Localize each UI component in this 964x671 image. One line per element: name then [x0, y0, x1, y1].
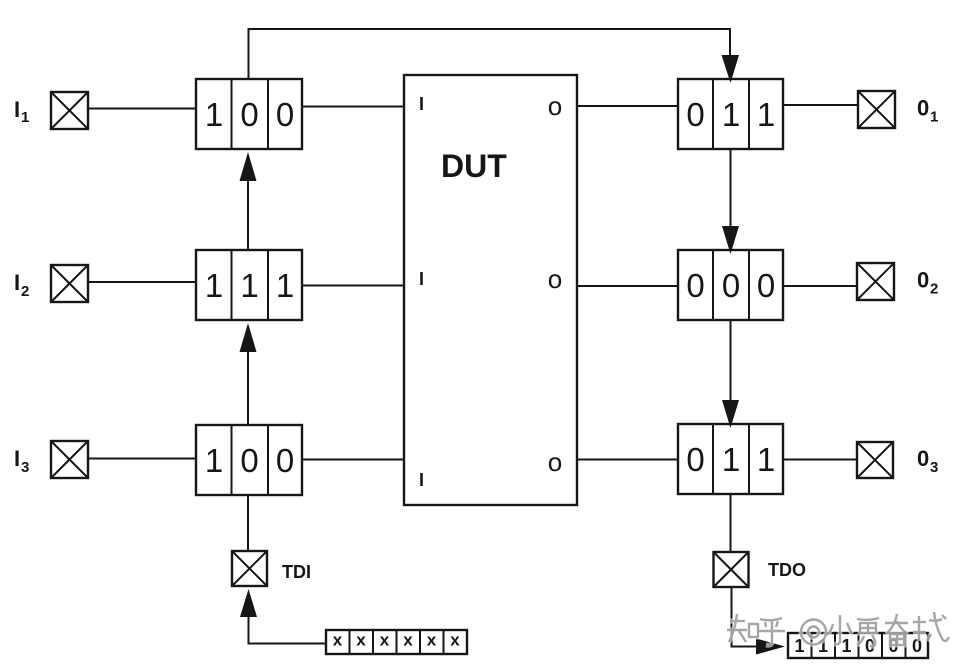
svg-text:I: I — [14, 270, 20, 295]
wire output register3 bottom to TDO pad — [730, 494, 732, 552]
svg-text:1: 1 — [757, 96, 775, 133]
svg-text:x: x — [333, 631, 343, 650]
node I1 label — [14, 97, 29, 126]
pin pad O3 (crossed box) — [857, 442, 893, 478]
pin pad I3 (crossed box) — [51, 441, 88, 478]
wire shift down: output register1 to register2 with arrowhead — [730, 149, 732, 226]
wire I2 pad to register — [88, 281, 196, 283]
svg-text:x: x — [356, 631, 366, 650]
wire register3 bottom to TDI pad — [247, 495, 249, 551]
wire TDO down and right to serial-out register — [732, 587, 758, 647]
svg-text:1: 1 — [240, 267, 258, 304]
svg-text:I: I — [419, 269, 424, 289]
svg-text:1: 1 — [757, 441, 775, 478]
xiao — [827, 615, 852, 644]
wire output register2 to O2 pad — [783, 285, 857, 287]
arrowhead into O1 top — [722, 55, 740, 83]
DUT U1 — [404, 75, 577, 505]
boundary scan cell register 0 1 1 (output row 1) — [678, 79, 783, 149]
svg-text:1: 1 — [205, 267, 223, 304]
boundary scan cell register 1 0 0 (input row 3) — [196, 425, 302, 495]
wire DUT to output register 1 — [577, 105, 678, 107]
svg-text:x: x — [427, 631, 437, 650]
svg-text:I: I — [14, 97, 20, 122]
fen — [885, 614, 908, 645]
node O3 label — [917, 446, 938, 476]
svg-text:0: 0 — [686, 96, 704, 133]
wire shift up: register2 to register1 with arrowhead — [247, 181, 249, 250]
svg-text:1: 1 — [276, 267, 294, 304]
svg-text:3: 3 — [930, 459, 938, 476]
wire shift down: output register2 to register3 with arrowhead — [730, 320, 732, 400]
svg-text:o: o — [548, 447, 562, 477]
svg-text:2: 2 — [21, 283, 29, 300]
wire I3 pad to register — [88, 458, 196, 460]
svg-text:1: 1 — [722, 96, 740, 133]
hu — [757, 618, 785, 645]
svg-text:0: 0 — [686, 441, 704, 478]
svg-text:x: x — [403, 631, 413, 650]
serial input shift register x x x x x x — [326, 630, 467, 654]
svg-text:0: 0 — [722, 267, 740, 304]
svg-text:0: 0 — [276, 442, 294, 479]
pin pad TDI (crossed box) — [232, 551, 267, 586]
zhan — [913, 612, 949, 641]
svg-text:0: 0 — [917, 268, 929, 293]
pin pad I2 (crossed box) — [51, 265, 88, 302]
zhi — [727, 614, 758, 642]
svg-text:0: 0 — [686, 267, 704, 304]
arrowhead into serial-out register — [756, 639, 785, 655]
svg-text:x: x — [450, 631, 460, 650]
wire output register3 to O3 pad — [783, 459, 857, 461]
svg-text:3: 3 — [21, 459, 29, 476]
wire DUT to output register 3 — [577, 459, 678, 461]
pin pad I1 (crossed box) — [51, 92, 88, 129]
wire output register1 to O1 pad — [783, 104, 858, 106]
at sign — [801, 620, 826, 645]
svg-text:0: 0 — [276, 96, 294, 133]
svg-text:0: 0 — [917, 446, 929, 471]
node O2 label — [917, 268, 938, 298]
svg-text:DUT: DUT — [441, 148, 507, 184]
svg-text:0: 0 — [240, 442, 258, 479]
boundary scan cell register 0 0 0 (output row 2) — [678, 250, 783, 320]
wire register3 to DUT — [302, 459, 404, 461]
svg-text:0: 0 — [757, 267, 775, 304]
svg-text:I: I — [419, 470, 424, 490]
svg-text:1: 1 — [841, 636, 851, 656]
svg-text:I: I — [419, 94, 424, 114]
wire DUT to output register 2 — [577, 285, 678, 287]
wire from serial-in register to TDI — [249, 617, 327, 644]
svg-text:o: o — [548, 264, 562, 294]
svg-text:I: I — [14, 446, 20, 471]
arrowhead into TDI bottom — [240, 589, 257, 617]
wire I1 pad to register — [88, 108, 196, 110]
svg-text:0: 0 — [240, 96, 258, 133]
wire shift up: register3 to register2 with arrowhead — [247, 352, 249, 425]
node I3 label — [14, 446, 29, 476]
svg-text:0: 0 — [917, 96, 929, 121]
svg-text:1: 1 — [205, 96, 223, 133]
yong — [857, 618, 879, 646]
svg-text:1: 1 — [930, 109, 938, 126]
pin pad TDO (crossed box) — [714, 552, 749, 587]
wire register2 to DUT — [302, 285, 404, 287]
pin pad O1 (crossed box) — [858, 91, 895, 128]
pin pad O2 (crossed box) — [857, 263, 894, 300]
boundary scan cell register 0 1 1 (output row 3) — [678, 424, 783, 494]
svg-text:1: 1 — [205, 442, 223, 479]
svg-text:2: 2 — [930, 281, 938, 298]
serial output shift register 1 1 1 0 0 0 — [788, 633, 928, 658]
svg-text:TDI: TDI — [282, 562, 311, 582]
boundary scan cell register 1 1 1 (input row 2) — [196, 250, 302, 320]
wire register1 to DUT — [302, 106, 404, 108]
wire feedback top: R1 middle cell up, across, down to O1 — [249, 29, 731, 79]
node O1 label — [917, 96, 938, 126]
boundary scan cell register 1 0 0 (input row 1) — [196, 79, 302, 149]
svg-text:x: x — [380, 631, 390, 650]
node I2 label — [14, 270, 29, 300]
watermark zhihu xiaoyongfenzhan — [727, 612, 949, 646]
svg-text:1: 1 — [722, 441, 740, 478]
svg-text:o: o — [548, 91, 562, 121]
svg-text:TDO: TDO — [768, 560, 806, 580]
svg-text:1: 1 — [21, 109, 29, 126]
